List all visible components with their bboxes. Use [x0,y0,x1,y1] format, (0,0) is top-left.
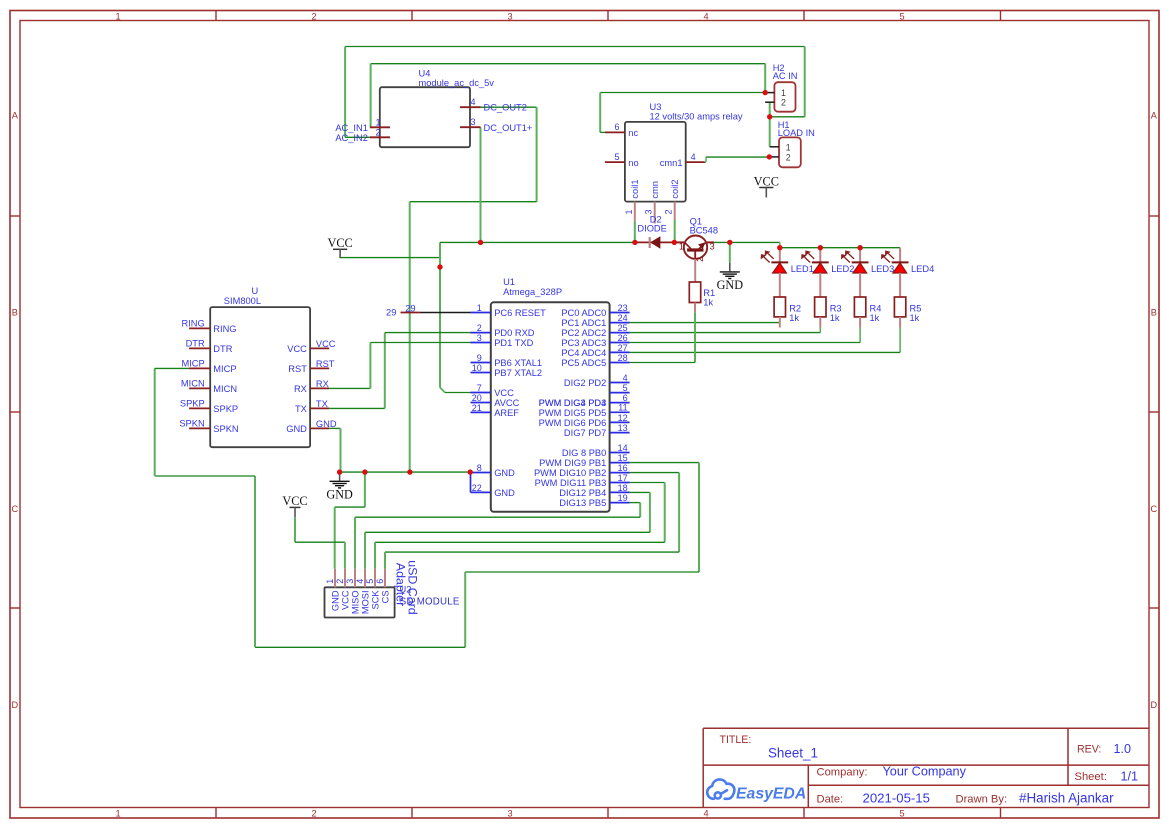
svg-text:1: 1 [325,579,335,584]
GND flag at rail [326,472,353,502]
wire net DC_OUT2 to GND rail [410,107,537,472]
svg-text:DIG7 PD7: DIG7 PD7 [564,428,606,438]
svg-text:Sheet:: Sheet: [1075,771,1107,783]
module U4 module_ac_dc_5v [370,69,494,148]
svg-text:EasyEDA: EasyEDA [736,785,806,802]
svg-text:TITLE:: TITLE: [720,734,752,746]
svg-text:3: 3 [345,579,355,584]
net labels SIM800L left [179,318,205,428]
svg-text:LED1: LED1 [791,264,814,274]
svg-text:2: 2 [477,323,482,333]
resistor R4 1k [854,297,881,328]
svg-text:3: 3 [507,808,512,818]
svg-text:Sheet_1: Sheet_1 [768,746,818,761]
svg-text:2: 2 [786,152,791,162]
VCC flag near U1 left [327,236,352,258]
svg-text:MICN: MICN [213,384,237,394]
svg-text:9: 9 [477,353,482,363]
wire base rail VCC to D2 [440,241,635,243]
net label 29 flag [386,308,420,318]
wire VCC flag to vertical feed [339,257,440,259]
LED LED1 [761,248,814,297]
svg-text:Drawn By:: Drawn By: [956,793,1008,805]
svg-text:PC5 ADC5: PC5 ADC5 [561,358,606,368]
svg-text:GND: GND [326,488,353,502]
svg-text:PC6 RESET: PC6 RESET [494,308,546,318]
junction LED3 anode rail [857,245,862,250]
svg-text:PWM DIG6 PD6: PWM DIG6 PD6 [539,418,607,428]
junction GND rail at GND flag [337,469,342,474]
svg-text:18: 18 [618,483,628,493]
svg-text:1k: 1k [830,313,840,323]
svg-text:3: 3 [507,11,512,21]
svg-text:PC0 ADC0: PC0 ADC0 [561,308,606,318]
svg-text:MICP: MICP [213,364,236,374]
svg-text:MICN: MICN [181,378,205,388]
GND flag at Q1 collector [717,263,744,293]
wire GND rail to SD pin1 [335,472,365,569]
svg-text:7: 7 [477,383,482,393]
wire U1 pin15 to SIM800 MICP [155,368,699,647]
svg-text:1: 1 [375,117,380,127]
svg-text:2: 2 [695,257,705,262]
wire pin28 to R1 bottom [630,312,695,362]
svg-text:2: 2 [311,808,316,818]
junction DC_OUT1+ on base rail [478,240,483,245]
svg-text:1k: 1k [910,313,920,323]
junction VCC feed [437,264,442,269]
svg-text:4: 4 [691,152,696,162]
wire pin27 to R5 [630,328,901,353]
wire H2 pin2 to H1 pin1 [765,102,770,147]
wire Q1 collector to LED rail [714,242,900,247]
svg-text:GND: GND [717,278,744,292]
svg-text:TX: TX [316,399,328,409]
junction coil2 / Q1 base [672,240,677,245]
resistor R5 1k [894,297,921,328]
svg-text:2: 2 [375,127,380,137]
svg-text:5: 5 [614,152,619,162]
svg-text:1: 1 [786,143,791,153]
svg-text:LED4: LED4 [911,264,934,274]
relay U3 12 volts/30 amps relay [605,102,743,224]
svg-text:29: 29 [386,308,396,318]
svg-text:DIG12 PB4: DIG12 PB4 [559,488,606,498]
svg-text:1k: 1k [870,313,880,323]
svg-text:#Harish Ajankar: #Harish Ajankar [1019,791,1114,806]
svg-text:PWM DIG10 PB2: PWM DIG10 PB2 [534,468,606,478]
svg-text:4: 4 [355,579,365,584]
svg-text:22: 22 [472,483,482,493]
svg-text:DIG13 PB5: DIG13 PB5 [559,498,606,508]
svg-text:24: 24 [618,313,628,323]
svg-text:1: 1 [624,209,634,214]
svg-text:14: 14 [618,443,628,453]
module U2 SD MODULE uSD Card Adapter [325,560,460,617]
svg-text:AC_IN2: AC_IN2 [335,133,368,143]
svg-text:SPKP: SPKP [180,398,205,408]
svg-text:28: 28 [618,353,628,363]
svg-text:SPKP: SPKP [213,404,238,414]
svg-text:GND: GND [494,468,515,478]
svg-text:PC4 ADC4: PC4 ADC4 [561,348,606,358]
svg-text:AC_IN1: AC_IN1 [335,123,368,133]
svg-text:PWM DIG11 PB3: PWM DIG11 PB3 [535,478,607,488]
svg-text:AVCC: AVCC [494,398,519,408]
wire U3 coil1 down [634,222,636,243]
svg-text:C: C [1150,504,1157,514]
LED LED4 [882,248,935,297]
svg-text:RX: RX [294,384,307,394]
svg-text:5: 5 [899,11,904,21]
wire VCC to SD pin2 [295,517,345,569]
module U SIM800L [189,286,329,447]
svg-text:17: 17 [618,473,628,483]
svg-text:4: 4 [471,97,476,107]
svg-text:LOAD IN: LOAD IN [778,128,815,138]
junction coil1 / diode cathode [632,240,637,245]
svg-text:25: 25 [618,323,628,333]
VCC flag near H1 [754,174,779,197]
svg-text:1k: 1k [703,297,713,307]
svg-text:RING: RING [181,318,204,328]
svg-text:U: U [252,286,259,296]
svg-text:RST: RST [316,359,335,369]
svg-text:AC IN: AC IN [773,71,798,81]
svg-text:1: 1 [115,11,120,21]
svg-text:VCC: VCC [327,236,352,250]
svg-text:8: 8 [477,463,482,473]
svg-text:VCC: VCC [341,590,351,610]
svg-text:SIM800L: SIM800L [224,296,261,306]
svg-text:29: 29 [405,303,415,313]
svg-text:B: B [12,308,18,318]
junction at H2 pin1 [763,90,768,95]
wire U3 nc to H2 pin1 [600,93,765,133]
wire pin25 to R3 [630,328,821,333]
svg-text:Atmega_328P: Atmega_328P [503,287,562,297]
svg-text:D: D [1150,700,1157,710]
svg-text:cmn1: cmn1 [660,158,683,168]
svg-text:5: 5 [899,808,904,818]
svg-text:PD0 RXD: PD0 RXD [494,328,535,338]
wire pin24 to R2 [630,322,780,324]
svg-text:Date:: Date: [817,793,844,805]
svg-text:19: 19 [618,493,628,503]
svg-text:LED2: LED2 [831,264,854,274]
svg-text:1: 1 [477,303,482,313]
svg-text:REV:: REV: [1077,744,1101,756]
svg-text:11: 11 [618,403,627,413]
svg-text:AREF: AREF [494,408,519,418]
wire U1 pin16 to SD CS [385,473,679,569]
svg-text:B: B [1151,308,1157,318]
svg-text:VCC: VCC [282,494,307,508]
svg-text:15: 15 [618,453,628,463]
svg-text:2021-05-15: 2021-05-15 [863,791,930,806]
svg-text:5: 5 [365,579,375,584]
svg-text:RING: RING [213,324,236,334]
net label AC_IN2 [335,133,368,143]
svg-text:coil1: coil1 [630,179,640,198]
svg-text:coil2: coil2 [670,179,680,198]
wire U1 pin22 up to rail [470,472,472,492]
junction LED2 anode rail [818,245,823,250]
junction at H1 pin2 [767,154,772,159]
chip U1 Atmega_328P [471,277,630,512]
wire pin26 to R4 [630,328,861,343]
svg-text:26: 26 [618,333,628,343]
svg-text:PWM DIG5 PD5: PWM DIG5 PD5 [539,408,607,418]
svg-text:20: 20 [472,393,482,403]
svg-text:C: C [11,504,18,514]
net label 29 on wire [405,303,415,313]
junction GND rail DC_OUT2 net [407,469,412,474]
svg-text:VCC: VCC [287,344,307,354]
wire SIM800 RX to U1 pin3 TXD [329,343,470,389]
svg-text:no: no [628,158,638,168]
svg-text:SPKN: SPKN [179,418,204,428]
svg-text:4: 4 [703,808,708,818]
VCC flag near SD card [282,494,307,517]
svg-text:PC1 ADC1: PC1 ADC1 [561,318,606,328]
svg-text:4: 4 [703,11,708,21]
svg-text:DIODE: DIODE [637,224,666,234]
transistor Q1 BC548 [674,217,718,283]
net label DC_OUT1+ [484,123,533,133]
svg-text:Adapter: Adapter [394,563,408,606]
svg-text:TX: TX [295,404,307,414]
wire U3 coil2 down [674,220,676,242]
svg-text:GND: GND [316,419,337,429]
wire U1 pin17 to SD SCK [375,483,665,569]
wire SIM800 GND down to rail [329,428,340,472]
junction GND rail to SD GND [362,469,367,474]
svg-text:VCC: VCC [494,388,514,398]
wire net 29 black segment [421,312,471,314]
svg-text:A: A [1151,111,1158,121]
svg-text:2: 2 [335,579,345,584]
svg-text:1.0: 1.0 [1114,742,1132,756]
svg-text:GND: GND [286,424,307,434]
header H2 AC IN [765,63,797,112]
svg-text:1: 1 [781,88,786,98]
svg-text:D: D [11,700,18,710]
svg-text:Your Company: Your Company [883,765,967,779]
svg-text:GND: GND [331,590,341,611]
svg-text:12: 12 [618,413,628,423]
svg-text:1: 1 [679,242,684,252]
svg-text:2: 2 [311,11,316,21]
svg-text:module_ac_dc_5v: module_ac_dc_5v [419,78,495,88]
EasyEDA logo [707,779,806,802]
wire Q1 collector GND tap [729,242,731,262]
svg-text:MOSI: MOSI [361,590,371,614]
svg-text:LED3: LED3 [871,264,894,274]
svg-text:DTR: DTR [186,338,205,348]
svg-text:1k: 1k [789,313,799,323]
LED LED2 [802,248,855,297]
svg-text:PWM DIG4 PD4: PWM DIG4 PD4 [539,398,607,408]
svg-text:A: A [12,111,19,121]
net label AC_IN1 [335,123,368,133]
svg-text:6: 6 [623,393,628,403]
wire SIM800 TX to U1 pin2 RXD [329,333,470,409]
svg-text:VCC: VCC [316,339,336,349]
svg-text:PD1 TXD: PD1 TXD [494,338,533,348]
svg-text:GND: GND [494,488,515,498]
resistor R2 1k [774,297,801,328]
svg-text:2: 2 [781,98,786,108]
LED LED3 [842,248,895,297]
junction GND rail at U1 pin8 [468,469,473,474]
svg-text:1/1: 1/1 [1121,770,1139,784]
svg-text:BC548: BC548 [690,226,718,236]
junction Q1 collector GND tap [727,240,732,245]
svg-text:6: 6 [614,122,619,132]
svg-text:12 volts/30 amps relay: 12 volts/30 amps relay [650,111,743,121]
wire net AC_IN1 to H2 pin1 [371,64,766,128]
svg-text:2: 2 [664,209,674,214]
header H1 LOAD IN [767,120,815,167]
wire U1 pin18 to SD MOSI [365,492,650,568]
svg-text:23: 23 [618,303,628,313]
svg-text:U1: U1 [503,277,515,287]
svg-text:SPKN: SPKN [213,424,238,434]
svg-text:PB7 XTAL2: PB7 XTAL2 [494,368,542,378]
svg-text:CS: CS [381,590,391,603]
wire net AC_IN2 top loop [345,47,805,138]
svg-text:21: 21 [472,403,482,413]
svg-text:4: 4 [623,373,628,383]
svg-text:DIG2 PD2: DIG2 PD2 [564,378,606,388]
svg-text:PC3 ADC3: PC3 ADC3 [561,338,606,348]
svg-text:5: 5 [623,383,628,393]
svg-text:13: 13 [618,423,628,433]
wire U1 pin19 to SD MISO [355,503,640,569]
svg-text:PC2 ADC2: PC2 ADC2 [561,328,606,338]
svg-text:DC_OUT1+: DC_OUT1+ [484,123,533,133]
resistor R1 1k [689,282,715,312]
junction LED1 anode rail [777,245,782,250]
wire net DC_OUT1+ down to base rail [480,127,482,242]
svg-text:3: 3 [710,242,715,252]
svg-text:6: 6 [375,579,385,584]
svg-text:VCC: VCC [754,174,779,188]
resistor R3 1k [815,297,842,328]
svg-text:RST: RST [288,364,307,374]
net labels SIM800L right [316,339,337,429]
svg-text:27: 27 [618,343,628,353]
net label DC_OUT2 [484,103,527,113]
title block [703,728,1149,807]
svg-text:PB6 XTAL1: PB6 XTAL1 [494,358,542,368]
svg-text:cmn: cmn [650,181,660,199]
svg-text:16: 16 [618,463,628,473]
svg-text:RX: RX [316,379,329,389]
svg-text:PWM DIG9 PB1: PWM DIG9 PB1 [539,458,606,468]
wire U3 cmn1 to H1 pin2 [705,157,770,162]
svg-text:Company:: Company: [817,766,868,778]
svg-text:MICP: MICP [181,358,204,368]
svg-text:1: 1 [115,808,120,818]
svg-text:3: 3 [477,333,482,343]
svg-text:DC_OUT2: DC_OUT2 [484,103,527,113]
svg-text:SCK: SCK [371,590,381,610]
diode D2 DIODE [635,215,674,249]
wire GND rail [340,471,471,473]
svg-text:nc: nc [628,128,638,138]
junction at H2 pin2 / H1 pin1 net [767,114,772,119]
svg-text:10: 10 [472,363,482,373]
svg-text:MISO: MISO [351,590,361,614]
svg-text:DIG 8 PB0: DIG 8 PB0 [562,448,606,458]
svg-text:DTR: DTR [213,344,232,354]
wire vertical VCC feed to U1 pin7 [440,242,471,392]
svg-text:3: 3 [471,117,476,127]
